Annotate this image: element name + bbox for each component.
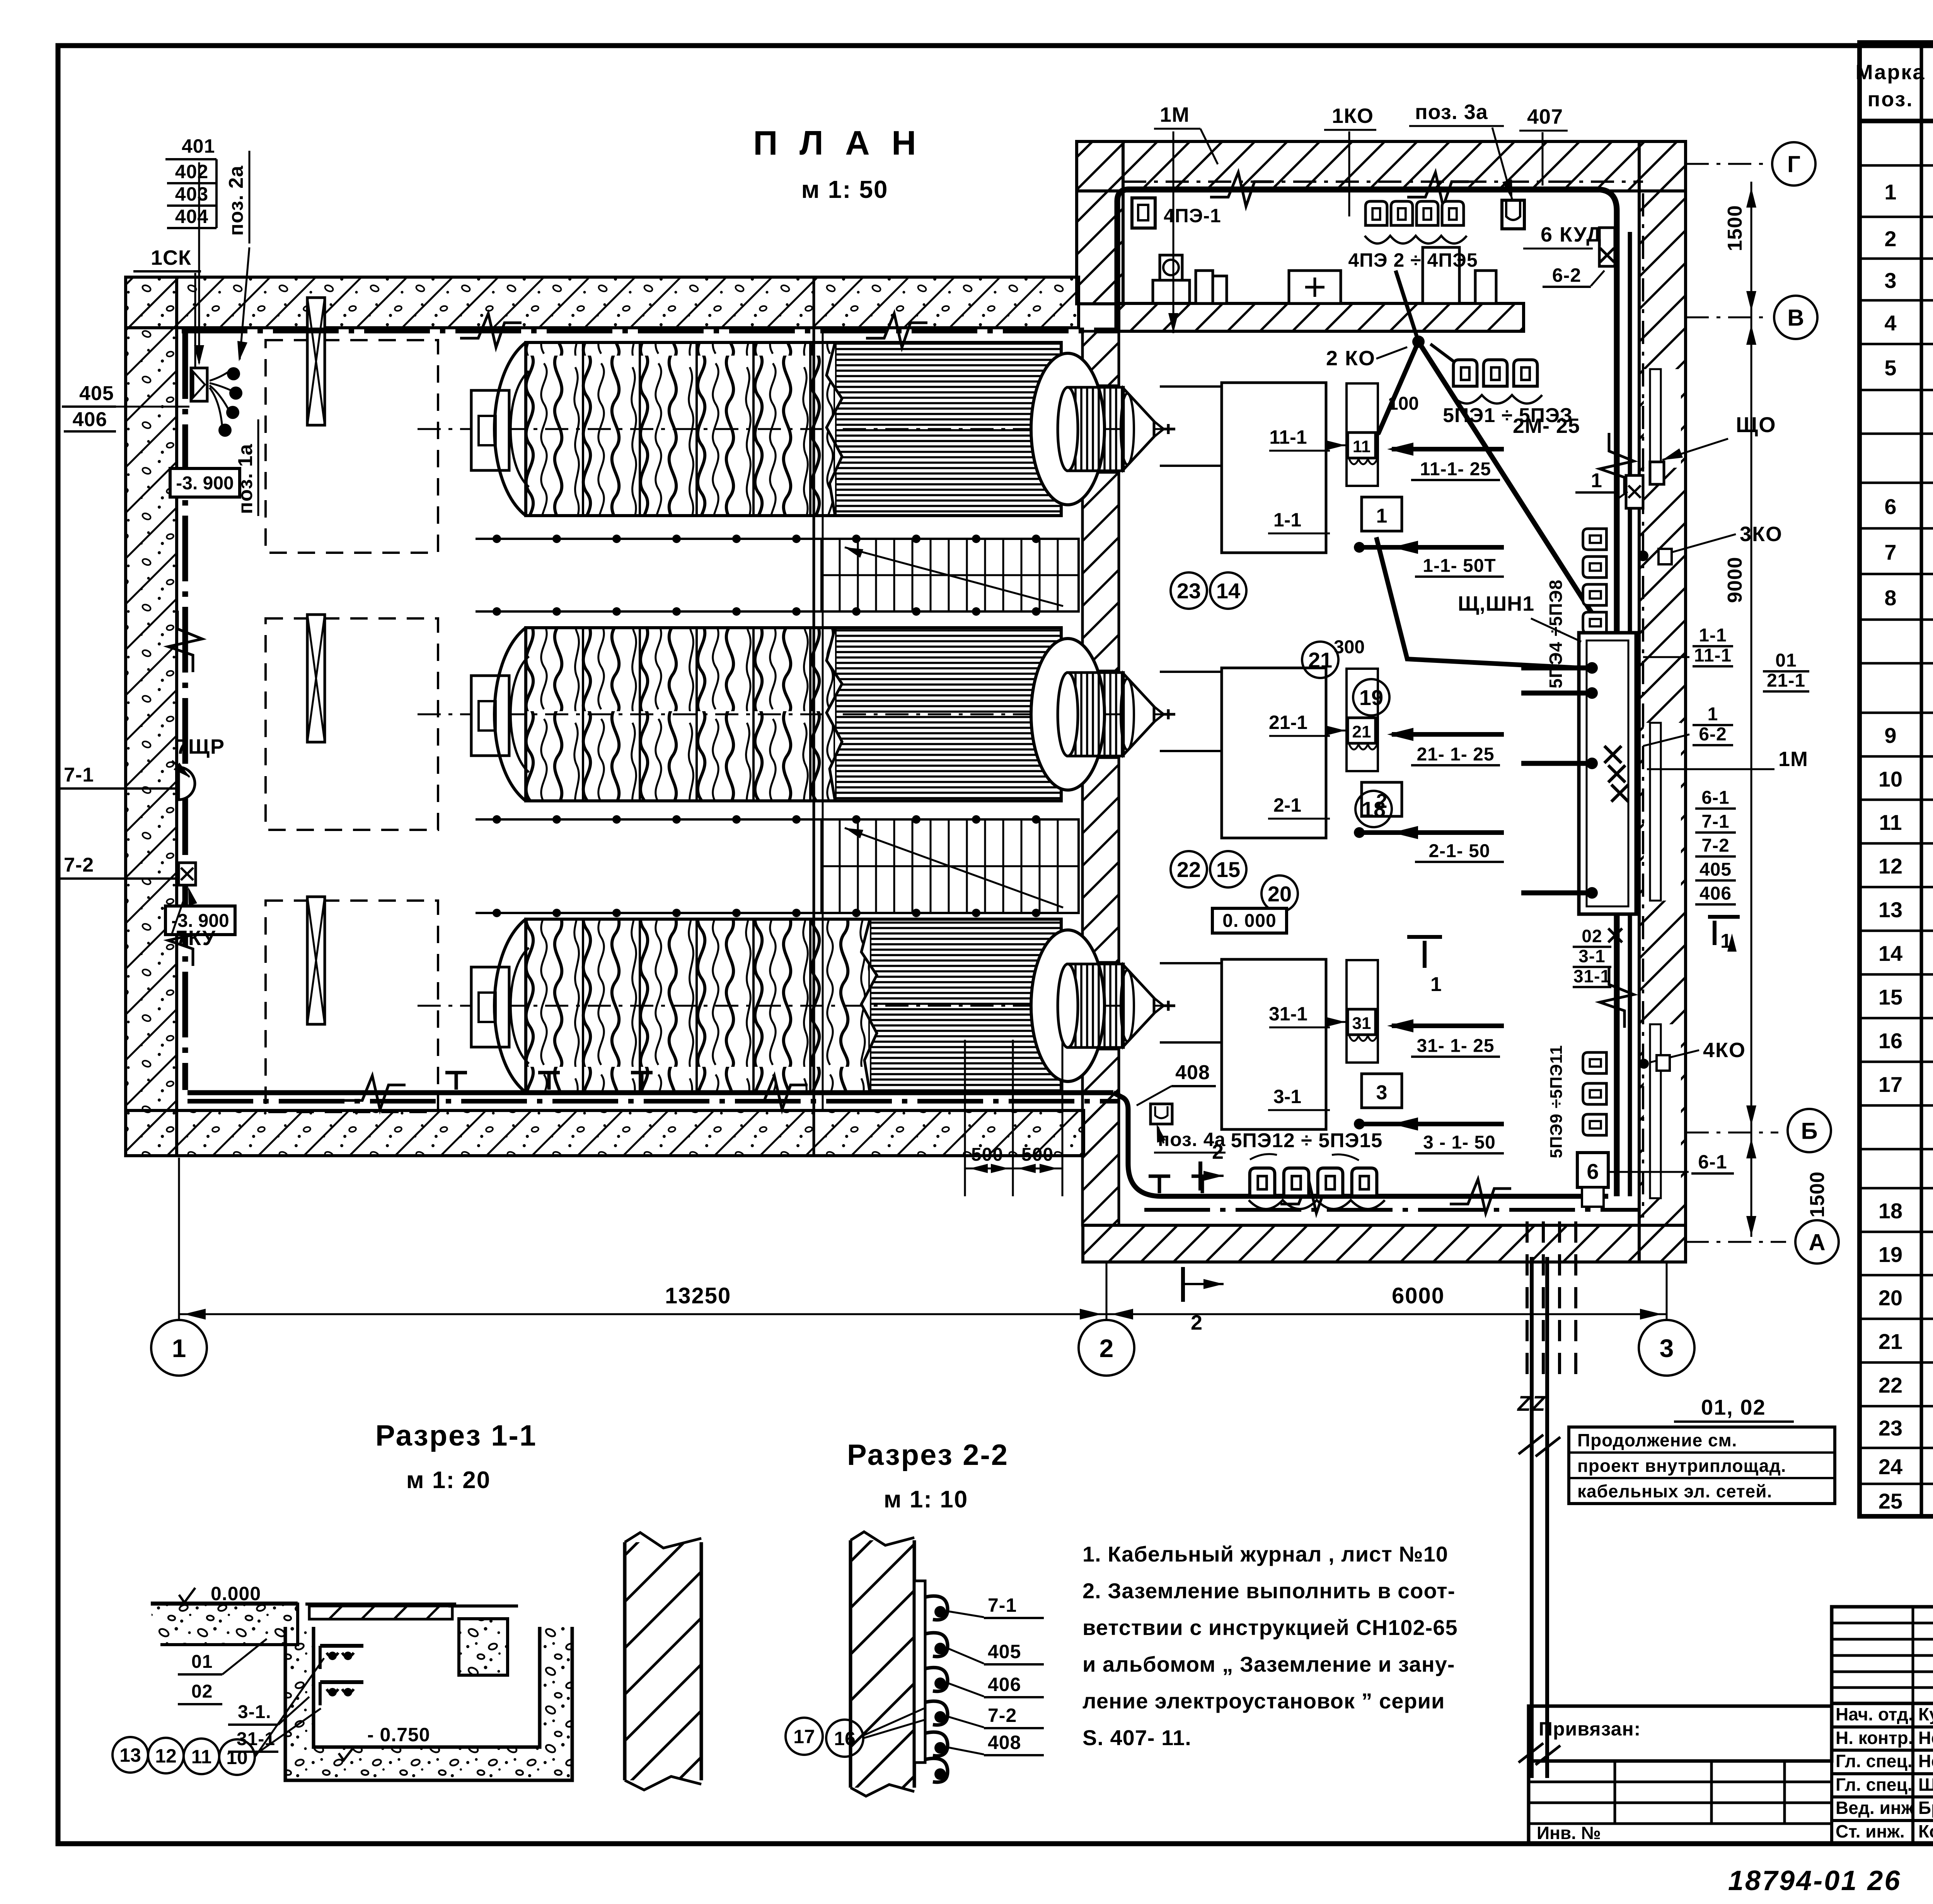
cabinet feeder stubs	[1521, 666, 1587, 671]
screw pump P2: break line between sections	[827, 628, 842, 801]
svg-text:19: 19	[1359, 685, 1383, 710]
svg-text:21-1: 21-1	[1269, 712, 1307, 733]
svg-text:31: 31	[1352, 1014, 1371, 1033]
svg-text:100: 100	[1388, 393, 1419, 414]
walkway edge lines with dots	[476, 538, 1079, 540]
section 2-2: cable hooks	[925, 1596, 948, 1620]
svg-text:ZZ: ZZ	[1517, 1391, 1546, 1415]
svg-text:6 КУД: 6 КУД	[1541, 223, 1602, 246]
svg-text:10: 10	[226, 1747, 248, 1768]
svg-text:-3. 900: -3. 900	[176, 473, 234, 494]
svg-text:13: 13	[1878, 898, 1902, 922]
box поз 4а	[1151, 1104, 1172, 1124]
svg-text:1: 1	[1430, 973, 1442, 996]
svg-text:406: 406	[73, 409, 107, 431]
svg-text:1М: 1М	[1778, 748, 1808, 771]
heavy trunk along bottom wall (solid)	[188, 1090, 1113, 1095]
right vertical dimension line	[1751, 182, 1752, 1237]
section 1-1: cable brackets	[320, 1644, 363, 1648]
box 1	[1362, 497, 1402, 531]
T supports on trunks	[1158, 1176, 1161, 1193]
feeder arrow 11-1- 25	[1392, 447, 1504, 451]
screw pump P3: nose	[1154, 998, 1164, 1006]
svg-text:12: 12	[155, 1745, 177, 1767]
wall: main hall bottom (concrete)	[126, 1110, 1084, 1156]
screw pump P2: spiral drum body	[526, 628, 835, 801]
screw pump P3: break line between sections	[861, 919, 877, 1092]
svg-text:31-1: 31-1	[1269, 1003, 1307, 1025]
screw pump P3: cone	[1123, 965, 1154, 1046]
title block: lower-left grid	[1529, 1761, 1832, 1844]
svg-text:01: 01	[1775, 650, 1797, 671]
svg-text:19: 19	[1878, 1242, 1902, 1267]
wall box 7-2	[179, 863, 196, 885]
section 1-1: right wall	[625, 1542, 701, 1780]
svg-text:м 1: 50: м 1: 50	[801, 175, 888, 203]
svg-text:Инв. №: Инв. №	[1537, 1823, 1601, 1843]
svg-text:м 1: 10: м 1: 10	[884, 1486, 968, 1513]
screw pump P2: cone	[1123, 674, 1154, 755]
svg-text:1: 1	[1591, 470, 1602, 492]
svg-text:21-1: 21-1	[1767, 670, 1805, 691]
svg-text:02: 02	[191, 1681, 213, 1702]
svg-text:24: 24	[1878, 1454, 1902, 1479]
section mark 1-1 near cabinet	[1708, 915, 1740, 919]
svg-text:2. Заземление выполнить: 2. Заземление выполнить в соот-	[1082, 1579, 1455, 1603]
screw pump P3: casing section (striped)	[870, 919, 1061, 1092]
svg-text:18794-01 26: 18794-01 26	[1728, 1865, 1901, 1896]
svg-text:1: 1	[172, 1334, 186, 1362]
svg-text:7ЩР: 7ЩР	[176, 735, 225, 758]
svg-text:408: 408	[1175, 1061, 1210, 1084]
screw pump P1: small striped cylinder	[1068, 387, 1123, 471]
svg-text:2: 2	[1884, 227, 1896, 251]
svg-text:12: 12	[1878, 854, 1902, 878]
axis dash-dot right vertical	[1642, 193, 1644, 1218]
svg-text:1-1- 50Т: 1-1- 50Т	[1423, 555, 1496, 576]
screw pump P2: axis line	[418, 714, 1175, 715]
heavy trunk left wall vertical	[182, 333, 188, 1090]
screw pump P1: spiral drum body	[526, 342, 835, 516]
window gap in right wall 1	[1644, 369, 1681, 468]
screw pump P2: drum end cap	[494, 628, 526, 801]
section 2-2: mounting strip	[914, 1581, 925, 1763]
svg-text:Привязан:: Привязан:	[1539, 1718, 1641, 1740]
svg-text:5ПЭ12 ÷ 5ПЭ15: 5ПЭ12 ÷ 5ПЭ15	[1231, 1129, 1383, 1152]
svg-text:7: 7	[1884, 540, 1896, 564]
svg-text:4ПЭ 2 ÷ 4ПЭ5: 4ПЭ 2 ÷ 4ПЭ5	[1348, 249, 1478, 271]
svg-text:S. 407- 11.: S. 407- 11.	[1082, 1725, 1192, 1750]
wall: partition x2800 with conveyor openings	[1082, 331, 1119, 386]
svg-text:7КУ: 7КУ	[176, 926, 216, 950]
crane beam with X brace 2	[307, 615, 325, 742]
dashed equipment area 2	[266, 618, 438, 830]
svg-text:ЩО: ЩО	[1736, 412, 1776, 437]
box поз 3а	[1502, 200, 1524, 229]
box 21	[1348, 718, 1376, 743]
svg-text:Ст. инж.: Ст. инж.	[1836, 1821, 1905, 1841]
svg-text:4КО: 4КО	[1703, 1039, 1746, 1062]
svg-text:Разрез 2-2: Разрез 2-2	[847, 1439, 1009, 1471]
svg-text:0. 000: 0. 000	[1222, 911, 1276, 931]
svg-text:405: 405	[1699, 859, 1732, 880]
svg-text:5ПЭ1 ÷ 5ПЭЗ: 5ПЭ1 ÷ 5ПЭЗ	[1443, 404, 1573, 427]
axis dash-dot annex top	[1123, 181, 1643, 183]
heaters 5ПЭ12-5ПЭ15	[1250, 1168, 1275, 1196]
section 2-2: wall	[851, 1540, 914, 1788]
svg-text:20: 20	[1878, 1286, 1902, 1310]
svg-text:Марка: Марка	[1856, 61, 1926, 84]
svg-text:6-2: 6-2	[1552, 264, 1581, 286]
svg-text:408: 408	[988, 1732, 1021, 1753]
screw pump P3: drive bearing blocks	[471, 967, 509, 1047]
screw pump P1: cone	[1123, 388, 1154, 470]
wall: annex top	[1077, 141, 1686, 191]
svg-text:Брюхина: Брюхина	[1918, 1798, 1933, 1818]
heaters 4ПЭ2-4ПЭ5	[1365, 201, 1387, 225]
svg-text:ление электроустановок ” с: ление электроустановок ” серии	[1082, 1689, 1445, 1713]
svg-text:6-1: 6-1	[1701, 787, 1729, 808]
axis Б circle	[1686, 1132, 1778, 1134]
svg-text:3-1.: 3-1.	[238, 1702, 271, 1722]
feeder arrow 2-1- 50	[1354, 827, 1365, 838]
svg-text:1500: 1500	[1724, 205, 1746, 251]
pilaster 2 on partition	[1475, 271, 1496, 303]
trunk drop through partition to annex bottom	[1113, 1093, 1608, 1196]
svg-text:16: 16	[1878, 1029, 1902, 1053]
svg-text:В: В	[1787, 305, 1804, 331]
svg-text:02: 02	[1582, 926, 1602, 946]
connection box КСК-15	[191, 368, 207, 401]
box 6КУД on wall	[1599, 228, 1615, 266]
outgoing cable bundle (dashed)	[1526, 1221, 1529, 1376]
section 1-1: floor slab left	[151, 1604, 298, 1645]
svg-text:поз. 3а: поз. 3а	[1415, 100, 1488, 124]
svg-text:406: 406	[1699, 883, 1732, 904]
svg-text:9: 9	[1884, 723, 1896, 748]
svg-text:7-2: 7-2	[64, 854, 94, 876]
svg-text:поз.: поз.	[1868, 88, 1914, 111]
svg-text:18: 18	[1878, 1199, 1902, 1223]
svg-text:поз. 1а: поз. 1а	[234, 444, 257, 514]
screw pump P1: casing section (striped)	[835, 342, 1061, 516]
svg-text:23: 23	[1878, 1416, 1902, 1440]
svg-text:1-1: 1-1	[1699, 625, 1727, 645]
window gap in right wall 3	[1644, 1024, 1681, 1198]
svg-text:14: 14	[1216, 579, 1240, 603]
svg-text:11: 11	[1879, 810, 1902, 834]
section mark 2 upper	[1198, 1161, 1202, 1190]
svg-text:22: 22	[1878, 1373, 1902, 1397]
block on B wall right	[1423, 247, 1459, 303]
svg-text:31-1: 31-1	[1573, 966, 1611, 986]
title block: Привязан box	[1529, 1706, 1832, 1761]
svg-text:01: 01	[191, 1652, 213, 1672]
grid axis 1	[178, 1158, 180, 1320]
svg-text:1М: 1М	[1160, 103, 1190, 126]
svg-text:3: 3	[1884, 268, 1896, 293]
specification table grid	[1860, 43, 1933, 1516]
svg-text:поз. 2а: поз. 2а	[225, 165, 247, 236]
small pillar on B wall	[1213, 276, 1227, 303]
svg-text:2 КО: 2 КО	[1326, 347, 1376, 370]
svg-text:25: 25	[1878, 1489, 1902, 1513]
svg-text:7-2: 7-2	[1701, 835, 1729, 856]
svg-text:проект внутриплощад.: проект внутриплощад.	[1577, 1456, 1786, 1476]
title block: signature rows	[1832, 1703, 1933, 1844]
feeder arrow 31- 1- 25	[1392, 1024, 1504, 1028]
screw pump P1: break line between sections	[827, 342, 842, 516]
svg-text:11-1: 11-1	[1694, 645, 1732, 666]
cabinet ЩШН1	[1579, 633, 1636, 914]
svg-text:1500: 1500	[1806, 1171, 1829, 1218]
section mark 2 lower	[1181, 1267, 1185, 1302]
svg-text:Кулагин: Кулагин	[1918, 1704, 1933, 1724]
screw pump P2: small striped cylinder	[1068, 673, 1123, 756]
svg-text:1: 1	[1708, 704, 1718, 724]
svg-text:14: 14	[1878, 941, 1902, 966]
svg-text:11-1: 11-1	[1269, 426, 1307, 448]
svg-text:21: 21	[1308, 648, 1332, 672]
screw pump P1: axis line	[418, 428, 1175, 430]
screw pump P1: end dome	[1031, 353, 1105, 505]
heater bank 5ПЭ4-5ПЭ8	[1583, 529, 1607, 550]
svg-text:6-2: 6-2	[1699, 724, 1727, 744]
svg-text:3-1: 3-1	[1578, 946, 1605, 966]
svg-text:2: 2	[1212, 1140, 1224, 1163]
level box -3.900 lower	[165, 906, 235, 935]
svg-text:1СК: 1СК	[151, 246, 191, 269]
svg-text:17: 17	[793, 1726, 815, 1747]
diagonal feeder cables from 2КО	[1418, 342, 1604, 633]
level box -3.900 upper	[170, 468, 240, 497]
svg-text:2-1- 50: 2-1- 50	[1428, 841, 1490, 861]
feeder arrow 3 - 1- 50	[1354, 1119, 1365, 1129]
svg-text:3КО: 3КО	[1740, 523, 1783, 546]
svg-text:403: 403	[175, 183, 208, 205]
outgoing cables 01 02	[1530, 1257, 1534, 1778]
svg-text:01, 02: 01, 02	[1701, 1395, 1766, 1419]
screw pump P3: spiral drum body	[526, 919, 870, 1092]
svg-text:ветствии с инструкцией СН10: ветствии с инструкцией СН102-65	[1082, 1615, 1458, 1640]
svg-text:11: 11	[191, 1746, 212, 1768]
svg-text:А: А	[1809, 1230, 1825, 1255]
svg-text:3: 3	[1660, 1334, 1674, 1362]
screw pump P3: small striped cylinder	[1068, 964, 1123, 1047]
screw pump P1: drum end cap	[494, 342, 526, 516]
heavy trunk along bottom wall (dash-dot)	[188, 1099, 1119, 1104]
screw pump P2: drive bearing blocks	[471, 676, 509, 756]
section 2-2: pos circles 17 16	[786, 1718, 823, 1755]
svg-text:500: 500	[971, 1144, 1003, 1165]
svg-text:Некрасов: Некрасов	[1918, 1728, 1933, 1748]
svg-text:4: 4	[1884, 311, 1896, 335]
wall: annex right	[1639, 141, 1686, 1262]
svg-text:1КО: 1КО	[1332, 104, 1374, 128]
svg-text:21: 21	[1352, 722, 1371, 741]
screw pump P1: nose	[1154, 421, 1164, 429]
section 1-1: pos circles 13 12 11 10	[113, 1737, 148, 1773]
svg-text:401: 401	[182, 135, 215, 157]
svg-text:1. Кабельный журнал , ли: 1. Кабельный журнал , лист №10	[1082, 1542, 1448, 1566]
wall: main hall left (concrete)	[126, 277, 177, 1156]
annex top cable run	[1117, 189, 1617, 1196]
pedestal symbol	[1153, 280, 1190, 303]
svg-text:Гл. спец.: Гл. спец.	[1836, 1751, 1913, 1771]
wall: annex step upper-left	[1077, 141, 1123, 304]
svg-text:11-1- 25: 11-1- 25	[1420, 459, 1491, 479]
svg-text:6: 6	[1884, 494, 1896, 519]
stairs S1	[822, 539, 1079, 611]
dimension 6000	[1106, 1313, 1667, 1315]
svg-text:405: 405	[988, 1641, 1021, 1662]
screw pump P2: casing section (striped)	[835, 628, 1061, 801]
cable breaks (zigzag)	[460, 313, 522, 347]
annex bottom dash-dot	[1144, 1208, 1639, 1212]
svg-text:Королева: Королева	[1918, 1821, 1933, 1841]
second trunk line right side	[1628, 232, 1632, 1196]
svg-text:18: 18	[1362, 797, 1386, 821]
svg-text:2-1: 2-1	[1273, 794, 1301, 816]
svg-text:13: 13	[119, 1744, 141, 1766]
svg-text:1-1: 1-1	[1273, 509, 1301, 531]
grid axis 3	[1666, 1263, 1668, 1320]
svg-text:10: 10	[1878, 767, 1902, 791]
wall: main hall top (concrete)	[126, 277, 1079, 328]
box 6	[1577, 1153, 1608, 1187]
svg-text:8: 8	[1884, 586, 1896, 610]
grid axis 2	[1106, 1263, 1108, 1320]
svg-text:500: 500	[1021, 1144, 1053, 1165]
svg-text:Вед. инж: Вед. инж	[1836, 1798, 1914, 1818]
svg-text:3 - 1- 50: 3 - 1- 50	[1423, 1132, 1496, 1153]
svg-text:Н. контр.: Н. контр.	[1836, 1728, 1913, 1748]
svg-text:Г: Г	[1787, 152, 1800, 177]
wall: annex bottom	[1083, 1225, 1686, 1262]
svg-text:11: 11	[1353, 437, 1371, 456]
dimension 13250	[179, 1313, 1106, 1315]
axis Г circle	[1686, 163, 1770, 165]
pilaster 1 on partition	[1196, 271, 1213, 303]
level box 0.000	[1212, 908, 1287, 933]
dimension 500 500	[965, 1168, 1062, 1170]
svg-text:23: 23	[1177, 579, 1201, 603]
svg-text:Б: Б	[1801, 1118, 1817, 1144]
feeder arrow 1-1- 50Т	[1354, 542, 1365, 553]
svg-text:15: 15	[1216, 857, 1240, 882]
axis В circle	[1686, 317, 1763, 318]
svg-text:22: 22	[1177, 857, 1201, 882]
box 1 on trunk	[1626, 475, 1643, 508]
screw pump P2: nose	[1154, 707, 1164, 714]
svg-text:Шумилов: Шумилов	[1918, 1775, 1933, 1795]
svg-text:6000: 6000	[1392, 1283, 1445, 1308]
dashed equipment area 3	[266, 901, 438, 1112]
svg-text:7-1: 7-1	[1701, 811, 1729, 832]
box 2	[1362, 782, 1402, 816]
screw pump P3: axis line	[418, 1005, 1175, 1007]
svg-text:1: 1	[1376, 505, 1388, 527]
screw pump P1: drive bearing blocks	[471, 390, 509, 470]
svg-text:Гл. спец.: Гл. спец.	[1836, 1775, 1913, 1795]
svg-text:Некрасов: Некрасов	[1918, 1751, 1933, 1771]
control equipment pump1: machine room rect	[1222, 383, 1326, 553]
svg-text:6: 6	[1587, 1159, 1599, 1184]
sensor dots поз 1а	[227, 367, 240, 380]
svg-text:21- 1- 25: 21- 1- 25	[1417, 744, 1494, 765]
section 1-1: U channel	[285, 1627, 572, 1780]
heaters 5ПЭ1-5ПЭ3	[1453, 360, 1477, 386]
box 31	[1348, 1009, 1376, 1035]
box 11	[1348, 433, 1376, 458]
crane beam with X brace 3	[307, 897, 325, 1024]
svg-text:7-1: 7-1	[64, 764, 94, 786]
box 4ПЭ-1	[1132, 198, 1155, 228]
svg-text:Щ,ШН1: Щ,ШН1	[1458, 592, 1534, 615]
svg-text:м 1: 20: м 1: 20	[406, 1467, 491, 1494]
svg-text:4ПЭ-1: 4ПЭ-1	[1164, 205, 1221, 227]
feeder arrow 21- 1- 25	[1392, 732, 1504, 737]
svg-text:406: 406	[988, 1674, 1021, 1695]
screw pump P3: drum end cap	[494, 919, 526, 1092]
section mark 1	[1407, 935, 1442, 939]
svg-text:Продолжение см.: Продолжение см.	[1577, 1430, 1737, 1450]
svg-text:кабельных эл. сетей.: кабельных эл. сетей.	[1577, 1481, 1772, 1501]
center pedestal with plus box	[1289, 271, 1341, 303]
section 1-1: cover plate (hatched)	[309, 1606, 452, 1619]
svg-text:15: 15	[1878, 985, 1902, 1009]
double vertical line (walkway edge)	[813, 277, 815, 1156]
axis А circle	[1686, 1241, 1786, 1243]
svg-text:9000: 9000	[1724, 557, 1746, 603]
section 1-1: right concrete block	[459, 1619, 508, 1675]
box 3	[1362, 1074, 1402, 1108]
svg-text:Нач. отд.: Нач. отд.	[1836, 1704, 1913, 1724]
svg-text:П Л А Н: П Л А Н	[753, 124, 922, 162]
svg-text:5ПЭ9 ÷5ПЭ11: 5ПЭ9 ÷5ПЭ11	[1547, 1045, 1566, 1158]
svg-text:0.000: 0.000	[211, 1583, 261, 1604]
svg-text:31- 1- 25: 31- 1- 25	[1417, 1035, 1494, 1056]
svg-text:1: 1	[1884, 180, 1896, 204]
svg-text:- 0.750: - 0.750	[367, 1724, 430, 1746]
svg-text:7-1: 7-1	[988, 1594, 1017, 1616]
title block: narrow revision grid	[1832, 1607, 1933, 1703]
wall: annex inner partition on axis В	[1119, 303, 1524, 331]
svg-text:404: 404	[175, 206, 208, 227]
svg-text:и альбомом „ Заземление и: и альбомом „ Заземление и зану-	[1082, 1652, 1455, 1676]
X marks on risers	[1604, 746, 1621, 763]
svg-text:21: 21	[1878, 1329, 1902, 1354]
crane beam with X brace 1	[307, 298, 325, 425]
svg-text:402: 402	[175, 161, 208, 182]
heavy trunk along top wall	[182, 328, 1119, 334]
dashed equipment area 1	[266, 340, 438, 553]
stairs S2	[822, 819, 1079, 913]
svg-text:2: 2	[1099, 1334, 1114, 1362]
window gap in right wall 2	[1644, 723, 1681, 901]
svg-text:3: 3	[1376, 1081, 1388, 1104]
svg-text:16: 16	[834, 1728, 856, 1749]
wall sensor 7-1	[179, 767, 195, 800]
control equipment pump2: machine room rect	[1222, 668, 1326, 838]
svg-text:5: 5	[1884, 356, 1896, 380]
svg-text:7-2: 7-2	[988, 1705, 1017, 1726]
control equipment pump3: machine room rect	[1222, 959, 1326, 1129]
svg-text:6-1: 6-1	[1698, 1151, 1727, 1173]
svg-text:13250: 13250	[665, 1283, 731, 1308]
svg-text:20: 20	[1268, 882, 1292, 906]
svg-text:17: 17	[1878, 1072, 1902, 1097]
